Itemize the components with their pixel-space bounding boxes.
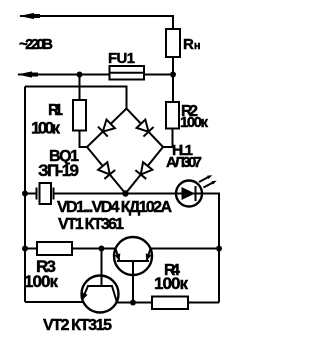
svg-text:VD1...VD4 КД102А: VD1...VD4 КД102А	[57, 199, 172, 216]
svg-text:FU1: FU1	[108, 50, 135, 67]
svg-text:100к: 100к	[180, 114, 208, 131]
svg-text:АЛ307: АЛ307	[166, 154, 202, 171]
svg-text:VT2 КТ315: VT2 КТ315	[43, 317, 112, 334]
svg-text:ЗП-19: ЗП-19	[38, 161, 79, 180]
svg-text:VT1 КТ361: VT1 КТ361	[58, 216, 124, 233]
svg-text:100к: 100к	[24, 272, 58, 291]
svg-text:100к: 100к	[31, 119, 60, 138]
svg-text:R1: R1	[48, 102, 63, 119]
svg-text:100к: 100к	[154, 274, 188, 293]
svg-text:~220В: ~220В	[19, 36, 53, 53]
